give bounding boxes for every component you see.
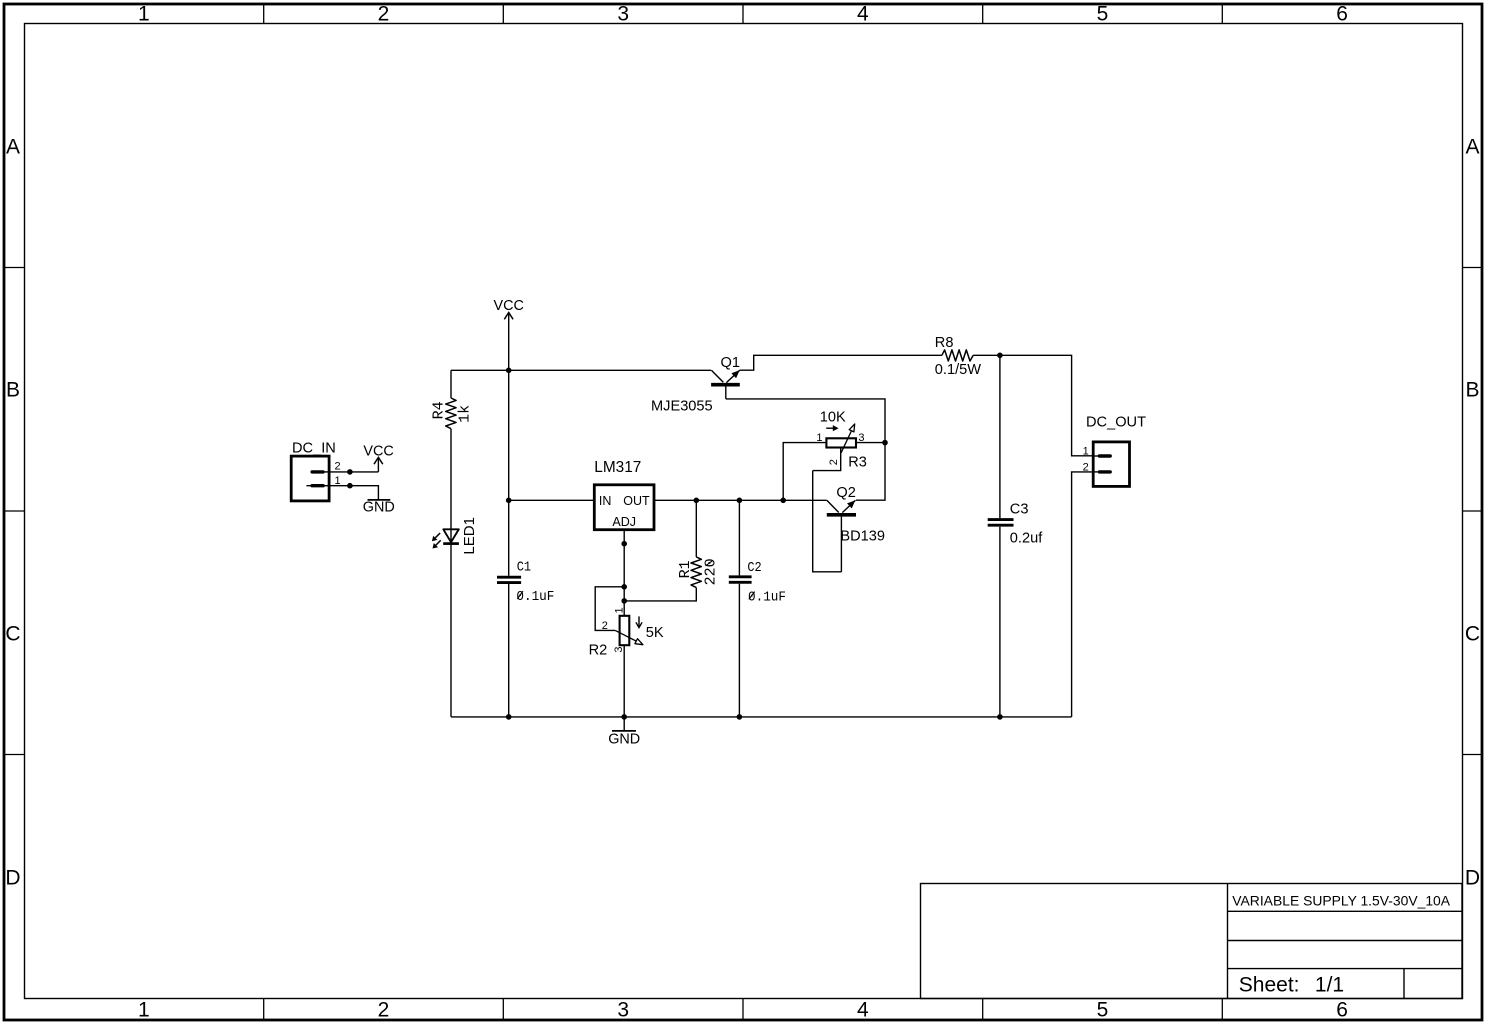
wire VCC rail to IN wire	[508, 370, 510, 500]
svg-text:GND: GND	[608, 732, 640, 748]
svg-text:C2: C2	[747, 560, 761, 576]
wire bottom bus GND	[451, 716, 1072, 718]
wire VCC rail to C1	[508, 500, 510, 576]
svg-text:4: 4	[857, 3, 869, 26]
svg-text:LM317: LM317	[594, 459, 641, 476]
svg-text:0.2uf: 0.2uf	[1010, 531, 1043, 547]
potentiometer R3 10K	[826, 424, 856, 453]
svg-text:R8: R8	[935, 335, 954, 351]
svg-text:A: A	[1465, 136, 1479, 159]
junction R3 pin3 / Q1 base rail	[882, 440, 888, 446]
wire Q1 emitter to R8	[740, 355, 942, 370]
ground GND (at DC_IN)	[363, 500, 395, 516]
junction OUT / R1	[694, 498, 700, 504]
svg-text:A: A	[6, 136, 20, 159]
wire C1 to bottom bus	[508, 584, 510, 717]
svg-text:BD139: BD139	[840, 528, 885, 544]
svg-text:2: 2	[378, 999, 390, 1022]
potentiometer R2 5K	[615, 616, 643, 645]
svg-text:Sheet:: Sheet:	[1239, 974, 1300, 997]
connector DC_OUT	[1093, 442, 1129, 487]
wire R2 pin3 to bottom bus	[623, 645, 625, 717]
svg-text:3: 3	[617, 3, 629, 26]
regulator U1 LM317	[594, 485, 654, 530]
svg-text:3: 3	[613, 646, 625, 652]
svg-text:2: 2	[828, 459, 840, 465]
junction OUT / R3 pin1	[780, 498, 786, 504]
power VCC (main rail)	[494, 298, 524, 371]
svg-text:LED1: LED1	[461, 517, 478, 555]
svg-text:4: 4	[857, 999, 869, 1022]
svg-text:GND: GND	[363, 500, 395, 516]
svg-text:1: 1	[138, 3, 150, 26]
junction ADJ / R1 bottom	[621, 598, 627, 604]
svg-text:C: C	[1465, 623, 1480, 646]
wire DC_OUT pin2 to bottom bus	[1072, 472, 1094, 717]
wire C3 to bottom bus	[999, 527, 1001, 717]
wire C3 top	[999, 355, 1001, 518]
svg-text:6: 6	[1336, 999, 1348, 1022]
ground GND (main)	[608, 717, 640, 748]
svg-text:5: 5	[1097, 3, 1109, 26]
capacitor C1	[497, 577, 521, 582]
wire R8 to DC_OUT pin1	[973, 355, 1093, 456]
svg-text:B: B	[6, 379, 20, 402]
junction bottom bus / R2	[621, 714, 627, 720]
wire Q1 base rail down to Q2 emitter	[856, 443, 885, 501]
wire R3 pin2 to Q2 base branch	[813, 447, 841, 471]
diode LED1	[432, 529, 459, 548]
resistor R4	[446, 398, 456, 429]
svg-text:10K: 10K	[820, 410, 846, 426]
wire R3 pin1 to OUT wire	[783, 443, 826, 501]
svg-text:R4: R4	[431, 401, 448, 419]
capacitor C2	[729, 577, 752, 583]
power VCC (at DC_IN)	[363, 443, 393, 472]
svg-text:1/1: 1/1	[1315, 974, 1344, 997]
wire top bus VCC	[451, 369, 711, 371]
resistor R1	[691, 557, 701, 588]
junction on pin2 wire	[347, 469, 353, 475]
C1 value 0.1uF	[516, 589, 554, 605]
svg-text:Q2: Q2	[836, 485, 855, 501]
wire DC_IN pin1 to GND	[329, 486, 378, 500]
svg-text:1: 1	[1083, 446, 1089, 458]
svg-text:VCC: VCC	[363, 443, 393, 459]
wire C2 top	[738, 500, 740, 575]
junction R8 wire / C3	[997, 353, 1003, 359]
junction bottom bus / C1	[506, 714, 512, 720]
svg-text:1k: 1k	[457, 405, 474, 423]
svg-text:IN: IN	[599, 494, 612, 508]
svg-text:Q1: Q1	[721, 355, 740, 371]
wire left rail top to R4	[450, 370, 452, 398]
svg-text:ADJ: ADJ	[612, 515, 636, 529]
wire Q2 base to R3 pin2 branch	[813, 471, 842, 572]
transistor Q1 MJE3055	[711, 370, 740, 399]
resistor R8	[942, 350, 973, 361]
svg-text:2: 2	[335, 461, 341, 473]
svg-text:OUT: OUT	[623, 494, 650, 508]
svg-text:B: B	[1465, 379, 1479, 402]
title block	[921, 884, 1463, 999]
svg-text:R2: R2	[589, 642, 608, 658]
R1 value 220	[702, 558, 719, 585]
svg-text:VCC: VCC	[494, 298, 524, 314]
wire ADJ rail	[623, 530, 625, 616]
junction top bus / VCC rail	[506, 368, 512, 374]
wire R3 pin3 to Q1 base rail	[856, 442, 885, 444]
svg-text:C1: C1	[517, 560, 531, 576]
wire DC_IN pin2 to VCC	[329, 471, 378, 473]
junction ADJ pin	[621, 541, 627, 547]
svg-text:2: 2	[602, 620, 608, 632]
svg-text:2: 2	[378, 3, 390, 26]
wire OUT (LM317 to Q2)	[654, 499, 827, 501]
svg-text:1: 1	[138, 999, 150, 1022]
wire C2 to bottom bus	[738, 584, 740, 717]
junction on pin1 wire	[347, 483, 353, 489]
svg-text:1: 1	[613, 607, 625, 613]
svg-text:VARIABLE SUPPLY 1.5V-30V_10A: VARIABLE SUPPLY 1.5V-30V_10A	[1232, 892, 1450, 908]
svg-text:MJE3055: MJE3055	[651, 398, 713, 414]
svg-text:3: 3	[617, 999, 629, 1022]
capacitor C3	[988, 520, 1014, 526]
svg-text:5K: 5K	[646, 625, 664, 641]
svg-text:0.1/5W: 0.1/5W	[935, 362, 981, 378]
wire R1 bottom to ADJ	[624, 588, 696, 601]
wire R2 wiper branch	[595, 587, 624, 631]
svg-text:DC_OUT: DC_OUT	[1086, 415, 1146, 431]
svg-text:5: 5	[1097, 999, 1109, 1022]
svg-text:D: D	[1465, 867, 1480, 890]
junction VCC rail / IN wire	[506, 498, 512, 504]
junction bottom bus / C3	[997, 714, 1003, 720]
svg-text:R1: R1	[677, 560, 694, 578]
junction ADJ / R2 wiper branch	[621, 584, 627, 590]
C2 value 0.1uF	[748, 590, 786, 606]
svg-text:6: 6	[1336, 3, 1348, 26]
wire IN (VCC rail to LM317)	[509, 499, 595, 501]
svg-text:C3: C3	[1010, 501, 1029, 517]
wire R1 top	[695, 500, 697, 557]
junction OUT / C2	[737, 498, 743, 504]
junction bottom bus / C2	[737, 714, 743, 720]
wire R4 to bottom bus	[450, 429, 452, 717]
svg-text:D: D	[5, 867, 20, 890]
svg-text:C: C	[5, 623, 20, 646]
transistor Q2 BD139	[827, 500, 856, 572]
svg-text:DC_IN: DC_IN	[292, 441, 336, 457]
wire Q1 base to R3 pin3	[726, 399, 885, 443]
connector DC_IN	[291, 456, 330, 501]
svg-text:R3: R3	[848, 455, 867, 471]
